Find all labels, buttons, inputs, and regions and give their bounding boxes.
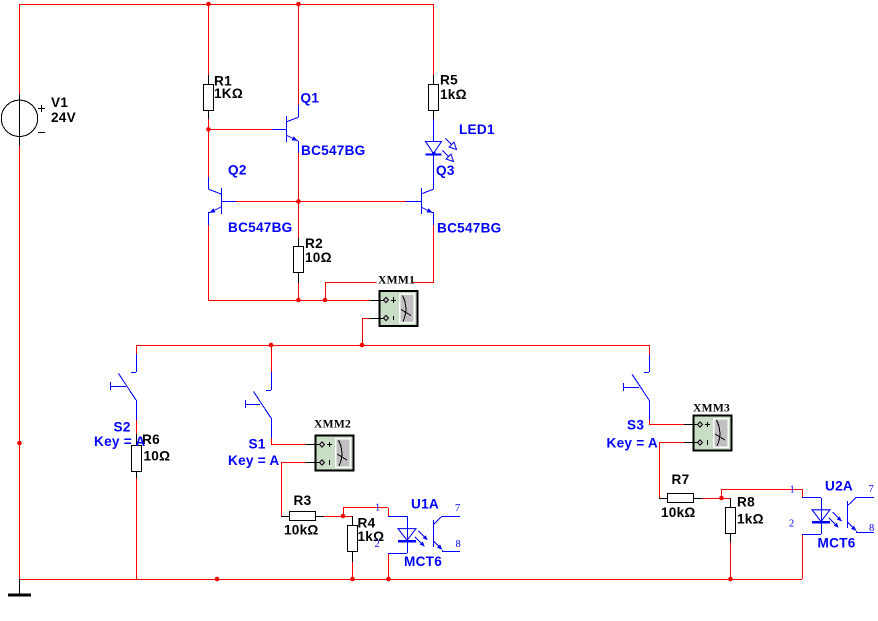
svg-text:R8: R8 <box>737 495 755 510</box>
svg-text:R3: R3 <box>294 493 312 508</box>
svg-text:2: 2 <box>375 539 381 550</box>
svg-text:Q2: Q2 <box>228 163 247 178</box>
svg-text:R2: R2 <box>305 236 323 251</box>
svg-text:Q3: Q3 <box>436 163 455 178</box>
svg-text:S3: S3 <box>627 418 644 433</box>
svg-text:10Ω: 10Ω <box>144 449 171 464</box>
svg-text:R5: R5 <box>440 73 458 88</box>
svg-text:BC547BG: BC547BG <box>437 220 501 235</box>
svg-text:V1: V1 <box>51 95 68 110</box>
svg-text:Key = A: Key = A <box>94 434 146 449</box>
svg-text:1: 1 <box>375 503 381 514</box>
svg-text:XMM2: XMM2 <box>314 418 351 431</box>
svg-text:XMM1: XMM1 <box>378 274 415 287</box>
svg-text:1KΩ: 1KΩ <box>214 86 243 101</box>
svg-text:8: 8 <box>869 523 875 534</box>
svg-text:Key = A: Key = A <box>607 435 659 450</box>
svg-text:U2A: U2A <box>825 479 853 494</box>
svg-text:BC547BG: BC547BG <box>301 143 365 158</box>
svg-text:10Ω: 10Ω <box>305 250 332 265</box>
svg-text:1kΩ: 1kΩ <box>440 87 467 102</box>
svg-text:10kΩ: 10kΩ <box>284 523 319 538</box>
svg-text:XMM3: XMM3 <box>693 402 730 415</box>
svg-text:S1: S1 <box>249 437 266 452</box>
svg-text:LED1: LED1 <box>459 122 495 137</box>
svg-text:MCT6: MCT6 <box>404 554 442 569</box>
svg-text:8: 8 <box>456 539 462 550</box>
svg-text:BC547BG: BC547BG <box>228 220 292 235</box>
svg-text:U1A: U1A <box>411 497 439 512</box>
svg-text:7: 7 <box>455 503 461 514</box>
svg-text:S2: S2 <box>114 419 131 434</box>
svg-text:1: 1 <box>790 485 796 496</box>
svg-text:R7: R7 <box>672 472 690 487</box>
svg-text:Key = A: Key = A <box>228 453 280 468</box>
svg-text:1kΩ: 1kΩ <box>737 512 764 527</box>
svg-text:1kΩ: 1kΩ <box>358 529 385 544</box>
svg-text:10kΩ: 10kΩ <box>661 505 696 520</box>
svg-text:2: 2 <box>789 519 795 530</box>
svg-text:MCT6: MCT6 <box>818 535 856 550</box>
svg-text:7: 7 <box>869 484 875 495</box>
svg-text:Q1: Q1 <box>301 91 320 106</box>
svg-text:24V: 24V <box>51 110 76 125</box>
